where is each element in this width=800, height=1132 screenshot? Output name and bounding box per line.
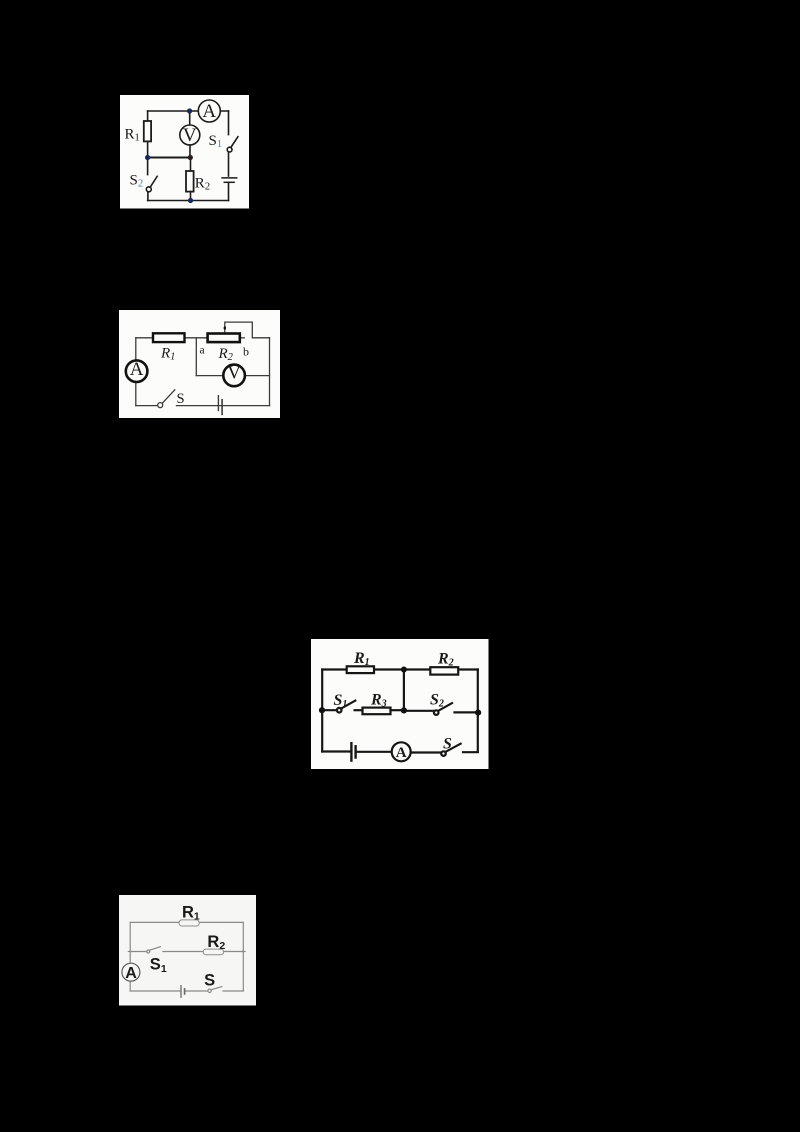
node dot top — [401, 667, 407, 673]
wire top — [130, 921, 243, 923]
wire node a down to V level — [195, 338, 197, 376]
voltmeter V — [223, 365, 245, 387]
wire switch to battery — [228, 152, 230, 176]
wire top — [148, 110, 229, 112]
wire top left — [322, 668, 347, 670]
node dot mid center — [401, 707, 407, 713]
switch S — [208, 987, 222, 993]
wire A to S — [411, 751, 441, 753]
wire battery to A — [356, 751, 392, 753]
wire right vertical — [269, 338, 271, 406]
resistor R2 — [186, 171, 194, 192]
battery long plate — [217, 396, 219, 411]
wire R3 to node — [391, 709, 404, 711]
wire bottom left — [136, 405, 158, 407]
wire battery to bottom — [228, 183, 230, 200]
junction tick left — [128, 951, 132, 953]
wire S to right — [223, 990, 243, 992]
switch S1 — [147, 947, 161, 953]
node dot mid-left — [145, 155, 150, 160]
wiper dot — [224, 326, 226, 330]
wire R2 to bottom — [190, 192, 192, 201]
wire left vertical — [321, 670, 323, 752]
switch S2 — [146, 176, 157, 192]
battery B1 — [222, 178, 237, 182]
wire right vertical — [242, 922, 244, 991]
resistor R1 — [179, 920, 199, 926]
svg-text:A: A — [202, 101, 216, 122]
wire left vertical lower — [135, 382, 137, 405]
node dot bottom — [188, 198, 193, 203]
resistor R1 — [144, 121, 151, 141]
svg-text:V: V — [183, 125, 197, 146]
resistor R1 — [347, 666, 374, 673]
wire R1 to R2 — [185, 337, 208, 339]
wire left vertical upper — [135, 338, 137, 360]
svg-text:a: a — [200, 344, 205, 356]
junction tick right — [242, 951, 246, 953]
wire middle horizontal — [148, 157, 191, 159]
wire bottom middle — [177, 405, 270, 407]
wire battery to S — [185, 990, 208, 992]
svg-text:V: V — [227, 363, 241, 384]
wire middle to S1 — [130, 951, 146, 953]
voltmeter V — [180, 125, 200, 145]
wire bottom — [148, 200, 229, 202]
wire V branch upper — [189, 111, 191, 125]
wire R2 to right — [224, 951, 244, 953]
battery short plate — [184, 989, 186, 994]
switch S1 — [227, 137, 238, 152]
wire left vertical — [147, 111, 149, 121]
node dot mid right — [475, 710, 481, 716]
svg-text:S: S — [204, 972, 215, 990]
wire node to R2 — [404, 668, 430, 670]
wire S2 to bottom — [147, 192, 149, 201]
wire V line left — [196, 375, 223, 377]
wire R2 upper — [190, 158, 192, 172]
wire bottom left — [322, 750, 349, 752]
ammeter A — [122, 963, 140, 981]
svg-text:A: A — [130, 359, 144, 380]
node dot top — [187, 108, 192, 113]
rheostat wiper arm — [225, 322, 270, 338]
wire V line right — [245, 375, 269, 377]
battery plates — [351, 743, 355, 760]
switch S1 — [337, 701, 355, 713]
wire R1 to junction — [147, 141, 149, 157]
wire left vertical lower — [129, 980, 131, 991]
wire top left — [136, 337, 153, 339]
battery short plate — [221, 400, 223, 415]
ammeter A — [198, 100, 220, 122]
svg-text:S: S — [177, 391, 185, 407]
resistor R2 — [430, 667, 458, 674]
wire bottom left — [130, 990, 180, 992]
svg-text:A: A — [396, 745, 407, 761]
ammeter A — [126, 360, 148, 382]
svg-text:b: b — [243, 345, 249, 359]
wire S2 upper — [147, 158, 149, 175]
wire right side down to switch S1 — [228, 111, 230, 135]
resistor R1 — [153, 333, 185, 342]
switch S — [158, 390, 175, 408]
ammeter A — [392, 742, 411, 761]
wire node to S2 — [404, 710, 434, 712]
node dot mid left — [319, 707, 325, 713]
switch S2 — [434, 703, 452, 715]
wire right vertical — [477, 670, 479, 752]
svg-text:S: S — [443, 736, 452, 753]
rheostat R2 — [208, 334, 240, 343]
resistor R3 — [363, 708, 391, 715]
wire center vertical — [403, 670, 405, 711]
battery long plate — [180, 986, 182, 998]
wire R2 to right corner — [458, 668, 478, 670]
wire left vertical upper — [129, 922, 131, 963]
wire S2 to right node — [455, 711, 479, 713]
switch S — [441, 744, 460, 756]
node dot mid-right — [188, 155, 193, 160]
wire S1 to R2 — [163, 951, 203, 953]
wire V to junction — [189, 145, 191, 158]
svg-text:A: A — [125, 965, 137, 982]
wire S to right corner — [463, 751, 478, 753]
wire R2 right stub b — [240, 337, 244, 339]
wire S1 to R3 — [355, 709, 363, 711]
resistor R2 — [203, 949, 223, 955]
wire middle left to S1 — [322, 709, 337, 711]
wire R1 to node — [374, 668, 404, 670]
